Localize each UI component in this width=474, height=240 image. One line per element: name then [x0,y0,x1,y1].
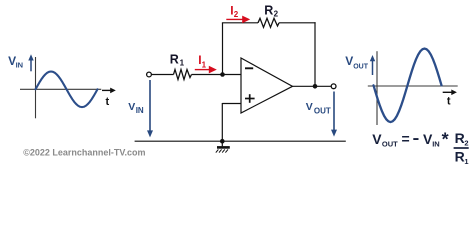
svg-text:©2022 Learnchannel-TV.com: ©2022 Learnchannel-TV.com [23,148,145,158]
svg-text:1: 1 [180,58,185,67]
svg-text:V: V [306,101,313,113]
wire R1 to op-amp minus input [192,74,242,76]
node A junction dot (inverting input node) [220,72,225,77]
resistor R1 [174,70,192,80]
wire plus input riser down [221,103,223,141]
svg-text:R: R [455,130,465,146]
left graph vertical axis [35,57,37,118]
svg-text:2: 2 [234,10,239,19]
left graph t arrow [102,88,116,94]
ground [216,141,230,152]
resistor R2 [258,18,279,27]
left graph V_IN label [8,54,23,69]
output terminal circle [331,84,336,89]
svg-text:IN: IN [16,60,24,69]
svg-text:*: * [442,130,449,150]
left graph input sine wave [36,72,98,108]
label I1 [198,53,206,69]
svg-text:OUT: OUT [353,63,369,70]
svg-text:IN: IN [432,139,440,148]
label R2 [264,3,278,18]
left graph blue up arrow [28,54,33,71]
current arrow I1 [195,66,217,74]
right graph horizontal axis [368,85,458,87]
wire top left segment [222,22,258,24]
node output junction dot [313,84,318,89]
svg-text:IN: IN [136,106,144,115]
label V_OUT (circuit, blue) [306,101,331,116]
wire bottom rail [135,140,346,142]
svg-text:R: R [264,3,273,17]
wire top right segment [279,22,316,24]
svg-text:V: V [128,101,135,113]
svg-text:=: = [402,131,410,147]
wire feedback left riser [222,23,224,75]
svg-text:1: 1 [464,157,468,166]
wire input terminal to R1 [152,74,174,76]
left graph horizontal axis [20,88,101,90]
right graph output sine wave (inverted) [374,49,442,123]
node ground junction dot [220,139,225,144]
svg-text:1: 1 [202,61,207,70]
wire output segment [293,85,332,87]
right graph vertical axis [376,51,378,125]
label R1 [170,52,185,67]
right graph t arrow [443,90,457,96]
svg-text:V: V [345,54,353,68]
right graph V_OUT label [345,54,369,70]
svg-text:2: 2 [274,10,279,19]
right graph blue up arrow [370,55,375,75]
svg-text:OUT: OUT [314,107,331,116]
V_OUT voltage arrow (blue, down) [331,92,337,137]
wire plus input horizontal [222,103,241,105]
label I2 [230,3,239,19]
op-amp minus symbol [245,67,253,69]
svg-text:R: R [170,52,179,66]
wire feedback right riser [314,22,316,86]
svg-text:2: 2 [464,139,468,148]
svg-text:R: R [455,148,465,164]
svg-text:OUT: OUT [382,139,398,148]
svg-text:t: t [106,96,110,108]
V_IN voltage arrow (blue, down) [147,80,153,137]
op-amp U1 triangle [241,58,293,113]
input terminal circle [147,72,152,77]
op-amp plus symbol [245,94,255,103]
formula V_OUT = - V_IN * R2/R1 [372,130,468,167]
svg-text:V: V [372,131,382,147]
svg-text:t: t [447,96,451,108]
label V_IN (circuit, blue) [128,101,144,115]
current arrow I2 [226,16,250,24]
